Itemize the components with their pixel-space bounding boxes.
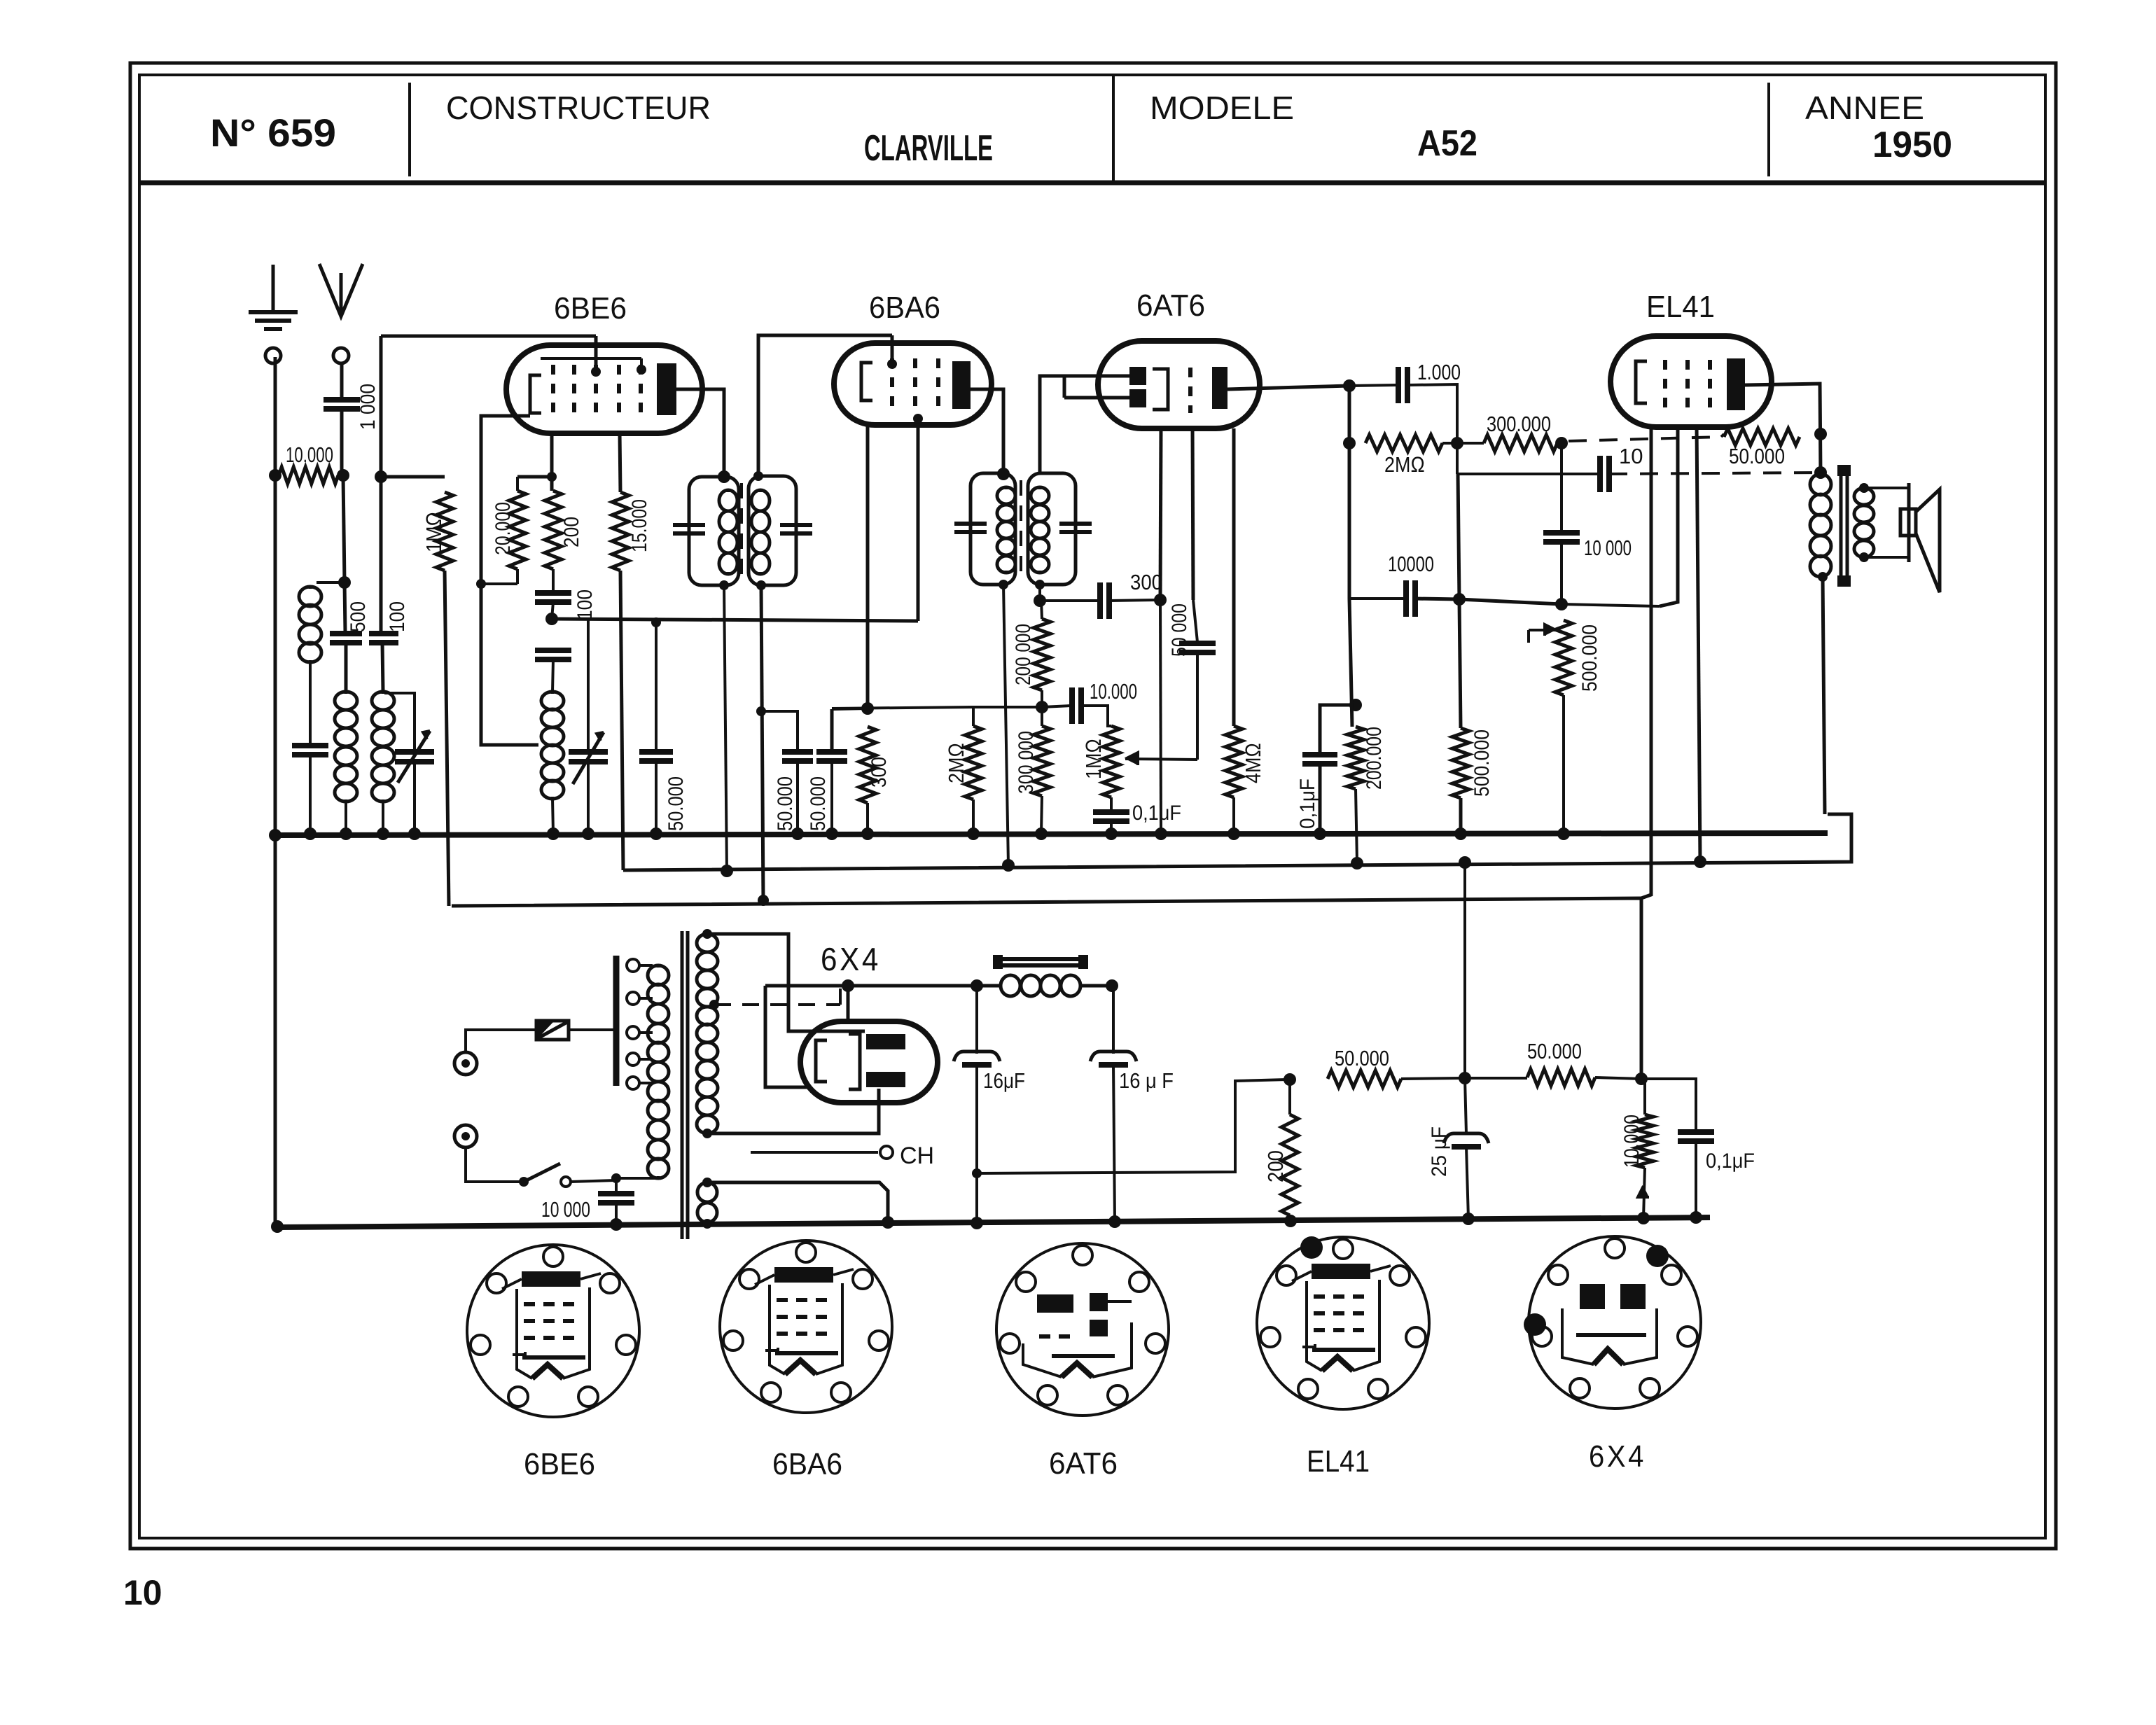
wire 50a to node bbox=[1401, 1078, 1462, 1079]
resistor 300.000 feedback bbox=[1484, 435, 1557, 452]
switch to transformer bbox=[571, 1180, 615, 1182]
wire bias vert up bbox=[1463, 898, 1466, 1078]
B+ riser to output transformer bbox=[1823, 577, 1825, 814]
wire cathode line bbox=[552, 619, 918, 621]
pinout EL41 top dot bbox=[1300, 1236, 1323, 1259]
EL41 grid1 dashed bbox=[1663, 360, 1667, 412]
wire cap3 to coil L4 bbox=[552, 659, 553, 692]
speaker voice coil bbox=[1900, 509, 1916, 536]
dot 300 bus bbox=[861, 827, 874, 840]
svg-text:6BA6: 6BA6 bbox=[869, 291, 940, 325]
capacitor 50.000 AVC 2 bbox=[830, 709, 834, 750]
coil L4 osc bbox=[551, 692, 555, 694]
resistor 200.000 right bbox=[1347, 727, 1364, 789]
svg-text:50 000: 50 000 bbox=[1168, 603, 1191, 657]
dot 200k B+ bbox=[1351, 857, 1363, 870]
wire signal grid vertical bbox=[380, 336, 383, 632]
mains transformer primary bar bbox=[613, 956, 620, 1086]
resistor 10.000 output bbox=[1641, 1077, 1645, 1080]
svg-text:6BE6: 6BE6 bbox=[524, 1447, 595, 1481]
dot bus left bbox=[269, 829, 281, 841]
pinout 6AT6 bbox=[996, 1243, 1169, 1416]
tube 6AT6 bbox=[1098, 341, 1260, 428]
svg-text:50.000: 50.000 bbox=[1335, 1046, 1389, 1070]
wire cap to 866 line bbox=[1560, 542, 1563, 604]
6BA6 grid top dot bbox=[887, 359, 897, 369]
CH terminal bbox=[880, 1146, 893, 1159]
dot bottom bus left bbox=[271, 1220, 284, 1233]
dot 4M bus bbox=[1227, 827, 1240, 840]
svg-text:1950: 1950 bbox=[1872, 125, 1952, 165]
header divider 1 bbox=[408, 83, 411, 176]
EL41 plate bbox=[1727, 358, 1745, 410]
svg-text:50.000: 50.000 bbox=[1729, 444, 1785, 468]
wire 20k bottom join bbox=[481, 582, 517, 585]
node 25uF top bbox=[1459, 1072, 1471, 1084]
capacitor 100 tank bbox=[369, 631, 398, 636]
svg-text:500: 500 bbox=[347, 601, 370, 632]
pinout 6X4 bbox=[1529, 1236, 1701, 1409]
dot VC2 bus bbox=[582, 827, 594, 840]
svg-text:1 000: 1 000 bbox=[356, 384, 380, 430]
primary tap 4 bbox=[627, 1053, 639, 1066]
IFT2 primary bottom wire bbox=[1003, 585, 1008, 865]
6BE6 top pin wire bbox=[594, 336, 598, 372]
dot 200 bus bbox=[1284, 1215, 1297, 1227]
resistor 500.000 grid bbox=[1452, 728, 1469, 798]
svg-text:300: 300 bbox=[868, 757, 891, 788]
svg-text:CONSTRUCTEUR: CONSTRUCTEUR bbox=[446, 90, 711, 126]
IFT1 right box bbox=[749, 476, 796, 585]
coil L1 antenna bbox=[317, 581, 345, 584]
wire 200 to cap bbox=[552, 569, 555, 592]
wire 2M-300k bbox=[1442, 442, 1484, 445]
resistor 2M AVC bbox=[972, 707, 975, 726]
svg-text:6AT6: 6AT6 bbox=[1049, 1446, 1118, 1481]
dot 01uF bus bbox=[1690, 1211, 1702, 1224]
svg-text:6BE6: 6BE6 bbox=[554, 291, 627, 326]
IFT1 primary coil bbox=[727, 490, 730, 492]
node plate 10line bbox=[1814, 466, 1827, 479]
dot T1 prim B+ bbox=[721, 865, 733, 877]
capacitor 500 bbox=[330, 631, 362, 636]
ground terminal bbox=[265, 348, 281, 363]
wire 1M to bias line bbox=[445, 571, 449, 906]
EL41 grid pin wire bbox=[1660, 427, 1678, 606]
svg-text:1.000: 1.000 bbox=[1417, 360, 1461, 384]
svg-text:6X4: 6X4 bbox=[1589, 1439, 1646, 1474]
6BA6 cathode bbox=[861, 363, 872, 400]
HV CT dashed bbox=[714, 1003, 840, 1006]
tube 6BA6 bbox=[834, 343, 992, 425]
cap 50.000 plates bbox=[639, 749, 673, 755]
wire 10k cap to pot bbox=[1081, 706, 1111, 726]
6BE6 grid3 dashed bbox=[594, 365, 598, 418]
antenna terminal bbox=[333, 348, 349, 363]
header bottom rule bbox=[139, 181, 2045, 186]
wire 10000 to grid line bbox=[1415, 599, 1459, 599]
capacitor 10000 fb bbox=[1349, 597, 1405, 600]
6AT6 grid bracket bbox=[1153, 369, 1168, 410]
dashed 10 line bbox=[1609, 473, 1821, 474]
capacitor 10 000 line bbox=[615, 1178, 618, 1192]
IFT2 primary top dot bbox=[997, 468, 1010, 480]
wire coupling elbow bbox=[1407, 384, 1457, 443]
6BA6 plate wire bbox=[971, 389, 1003, 474]
wire avc2 cap stub bbox=[832, 708, 868, 709]
dot screen B+ bbox=[1694, 855, 1706, 868]
svg-text:50.000: 50.000 bbox=[665, 776, 688, 831]
node pot top bbox=[1555, 598, 1568, 610]
capacitor 1.000 antenna bbox=[324, 397, 360, 403]
phono jack 2 bbox=[454, 1125, 477, 1147]
svg-text:10000: 10000 bbox=[1388, 552, 1434, 576]
capacitor 10 000 grid bbox=[1543, 530, 1580, 536]
ground symbol bbox=[272, 265, 275, 312]
output transformer primary bbox=[1819, 474, 1823, 476]
HV bottom wire bbox=[707, 1089, 879, 1133]
6AT6 grid pin wire bbox=[1160, 428, 1161, 600]
6AT6 diode plate 2 bbox=[1129, 389, 1146, 407]
resistor 300 000 det bbox=[1034, 726, 1050, 796]
wire L3 to bus bbox=[382, 802, 384, 833]
wire ant node to cap500 bbox=[345, 582, 345, 632]
svg-text:25 μF: 25 μF bbox=[1428, 1126, 1451, 1177]
6BE6 grid5 dashed bbox=[639, 365, 643, 418]
wire avc2 to bus bbox=[830, 762, 833, 833]
svg-text:EL41: EL41 bbox=[1307, 1444, 1370, 1479]
dot pot bus bbox=[1557, 827, 1570, 840]
6X4 inner bracket bbox=[849, 1034, 860, 1089]
HV top wire bbox=[707, 934, 865, 1031]
svg-text:A52: A52 bbox=[1417, 123, 1477, 164]
6AT6 diode pin wire bbox=[1192, 428, 1193, 600]
capacitor 10.000 det bbox=[1042, 706, 1071, 707]
wire 25uF to bus bbox=[1466, 1147, 1468, 1219]
switch wire bbox=[466, 1147, 521, 1182]
6BE6 plate wire bbox=[676, 389, 724, 477]
capacitor 25uF bbox=[1465, 1078, 1466, 1134]
node 6AT6 grid line bbox=[1154, 594, 1167, 606]
potentiometer 500.000 bbox=[1555, 620, 1572, 695]
6BE6 grid2 dashed bbox=[572, 365, 576, 418]
capacitor 10 feedback bbox=[1456, 443, 1459, 474]
wire divider line bbox=[973, 706, 1042, 708]
speaker wires bbox=[1864, 487, 1909, 489]
primary coil bottom bbox=[616, 1177, 658, 1180]
capacitor 300 det bbox=[1097, 582, 1103, 619]
speaker cone bbox=[1916, 489, 1940, 592]
capacitor 16uF 1 bbox=[975, 986, 978, 1054]
resistor 200 000 det bbox=[1041, 601, 1042, 619]
resistor 10.000 ant-gnd bbox=[279, 467, 338, 484]
dot 01uf bus bbox=[1105, 827, 1118, 840]
speaker frame bbox=[1907, 483, 1911, 562]
node cathode line left bbox=[545, 613, 558, 625]
dot 16uF2 bus bbox=[1108, 1215, 1121, 1228]
svg-text:1MΩ: 1MΩ bbox=[422, 512, 446, 552]
HV CT riser bbox=[839, 989, 842, 1005]
svg-text:500.000: 500.000 bbox=[1578, 624, 1601, 692]
EL41 plate wire bbox=[1745, 384, 1821, 474]
pot arrow bbox=[1529, 629, 1556, 631]
pinout 6BA6 bbox=[720, 1241, 892, 1413]
wire 300 to bus bbox=[866, 803, 869, 833]
6BE6 pin A down bbox=[550, 433, 554, 491]
IFT2 left box bbox=[971, 473, 1015, 585]
6AT6 diode plate 1 bbox=[1129, 367, 1146, 385]
wire 300cap to grid line bbox=[1109, 600, 1159, 601]
svg-text:300 000: 300 000 bbox=[1015, 731, 1038, 794]
svg-text:EL41: EL41 bbox=[1646, 290, 1715, 324]
resistor 20.000 bbox=[516, 477, 519, 491]
6AT6 plate wire bbox=[1227, 386, 1349, 389]
wire 16uF2 to bus bbox=[1113, 1065, 1115, 1222]
IFT2 right cap bbox=[1059, 522, 1092, 526]
svg-text:CLARVILLE: CLARVILLE bbox=[864, 128, 993, 169]
OT primary bottom dot bbox=[1818, 572, 1828, 582]
dot T2 prim B+ bbox=[1002, 859, 1015, 872]
wire 10k to bus arrow bbox=[1643, 1168, 1645, 1218]
wire 50k cap to bus bbox=[655, 762, 658, 833]
OT secondary bbox=[1863, 488, 1866, 490]
6BA6 cathode pin wire bbox=[866, 425, 870, 710]
potentiometer 1M volume bbox=[1103, 726, 1120, 797]
svg-text:50.000: 50.000 bbox=[774, 776, 797, 831]
node ant junction bbox=[337, 469, 349, 482]
phono jack 1 bbox=[454, 1052, 477, 1075]
dashed feedback line bbox=[1569, 437, 1721, 441]
wire fb to 50k bbox=[1721, 434, 1724, 437]
outer page border frame bbox=[130, 63, 2056, 1549]
6X4 top pin bbox=[847, 986, 850, 1021]
capacitor 100 osc bbox=[535, 590, 571, 596]
capacitor 50.000 osc pad bbox=[655, 622, 658, 750]
dot L4 bus bbox=[547, 827, 559, 840]
6AT6 plate bbox=[1212, 367, 1227, 409]
B+ line bbox=[623, 814, 1851, 870]
wire 300k to bus bbox=[1041, 796, 1042, 833]
IFT1 primary top dot bbox=[718, 470, 730, 483]
wire pot to bus bbox=[1562, 695, 1565, 833]
6BA6 grid1 dashed bbox=[890, 358, 894, 410]
capacitor L1 bottom bbox=[292, 743, 328, 748]
6AT6 grid dashed bbox=[1188, 368, 1192, 413]
inner page border frame bbox=[139, 75, 2045, 1538]
IFT2 primary coil bbox=[1005, 487, 1008, 489]
svg-text:300: 300 bbox=[1130, 570, 1162, 594]
capacitor 0,1uF output bbox=[1678, 1129, 1714, 1135]
coil L2 bbox=[345, 692, 348, 694]
resistor 200 bias bbox=[1288, 1080, 1291, 1115]
wiper arrow 1M bbox=[1125, 759, 1197, 760]
capacitor osc coil top bbox=[535, 648, 571, 653]
OT core bbox=[1839, 470, 1843, 581]
svg-text:16 μ F: 16 μ F bbox=[1119, 1068, 1174, 1093]
dot bias cross bbox=[1459, 856, 1471, 869]
dot 2M bus bbox=[967, 827, 980, 840]
svg-text:0,1μF: 0,1μF bbox=[1296, 778, 1319, 829]
wire avc1 to bus bbox=[796, 762, 799, 833]
svg-text:ANNEE: ANNEE bbox=[1805, 90, 1924, 126]
svg-text:100: 100 bbox=[573, 589, 597, 620]
switch bbox=[519, 1177, 529, 1187]
node 300k right bbox=[1555, 437, 1568, 449]
heater winding bbox=[706, 1182, 709, 1185]
IFT1 right cap bbox=[780, 523, 812, 527]
filter choke coil bbox=[1001, 975, 1020, 996]
wire B+ feed lower bbox=[977, 1080, 1287, 1173]
dot 500k grid bus bbox=[1454, 827, 1467, 840]
6BA6 plate bbox=[952, 361, 971, 409]
primary tap 5 bbox=[627, 1077, 639, 1089]
dot line cap bus bbox=[610, 1218, 623, 1231]
svg-text:200: 200 bbox=[560, 517, 583, 547]
svg-text:100: 100 bbox=[386, 601, 409, 632]
wire 300k node down bbox=[1560, 443, 1563, 531]
svg-text:500.000: 500.000 bbox=[1470, 729, 1494, 797]
wire VC1 top bbox=[384, 693, 415, 750]
wire cap to cath node bbox=[552, 602, 553, 619]
pinout 6X4 dots bbox=[1646, 1245, 1669, 1267]
wire gnd vert join bbox=[269, 469, 281, 482]
node plate 50k bbox=[1814, 428, 1827, 440]
6X4 plate 1 bbox=[866, 1034, 905, 1049]
svg-text:10: 10 bbox=[1619, 444, 1643, 468]
dot 6AT6 grid bus bbox=[1155, 827, 1167, 840]
mains transformer primary coil bbox=[657, 965, 660, 968]
filter choke core bbox=[998, 957, 1083, 961]
resistor 50.000 fb bbox=[1724, 428, 1800, 445]
dot choke left bbox=[971, 979, 983, 992]
coil L3 bbox=[382, 692, 385, 694]
capacitor 1.000 coupling bbox=[1349, 385, 1397, 386]
node 2M h left bbox=[1343, 437, 1356, 449]
6X4 cathode wire bbox=[765, 986, 807, 1087]
6BA6 grid3 dashed bbox=[936, 358, 940, 410]
IFT1 secondary bottom wire bbox=[761, 585, 763, 900]
wire 50b right bbox=[1595, 1077, 1641, 1079]
wire 200k-300k bbox=[1041, 690, 1043, 726]
wire avc row left bbox=[832, 707, 973, 708]
wire osc fb tap bbox=[481, 584, 538, 745]
wire plate node down bbox=[1349, 599, 1352, 727]
resistor 50.000 a bbox=[1328, 1070, 1401, 1087]
svg-text:6X4: 6X4 bbox=[821, 941, 881, 977]
6AT6 diode wires bbox=[1040, 376, 1129, 473]
node det 858 bbox=[1034, 594, 1046, 607]
wire 681 stub to 1M bbox=[381, 475, 445, 479]
dot avc2 bus bbox=[826, 827, 838, 840]
wire 20k top stub bbox=[517, 475, 552, 479]
svg-text:0,1μF: 0,1μF bbox=[1706, 1150, 1755, 1173]
svg-text:1MΩ: 1MΩ bbox=[1081, 739, 1106, 779]
wire antenna down bbox=[340, 363, 344, 398]
wire L2 to bus bbox=[345, 802, 347, 833]
svg-text:16μF: 16μF bbox=[983, 1068, 1025, 1093]
primary tap 3 bbox=[627, 1026, 639, 1039]
HV winding bbox=[706, 934, 709, 936]
primary tap 2 bbox=[627, 992, 639, 1005]
svg-text:50.000: 50.000 bbox=[1527, 1039, 1582, 1063]
wire diode cap to wiper bbox=[1196, 652, 1199, 760]
EL41 screen pin wire bbox=[1697, 427, 1700, 862]
wire grid line to bus bbox=[1160, 600, 1161, 833]
wire 01uF stub bbox=[1641, 1079, 1696, 1131]
svg-text:50.000: 50.000 bbox=[807, 776, 830, 831]
6BA6 g3 pin wire bbox=[917, 425, 920, 621]
node 50k row left bbox=[1284, 1073, 1296, 1086]
node 200k top bbox=[1349, 699, 1362, 711]
svg-text:10.000: 10.000 bbox=[286, 442, 333, 467]
svg-text:15.000: 15.000 bbox=[628, 499, 651, 552]
node 300.000 junction bbox=[1451, 437, 1463, 449]
wire cap500 to L2 bbox=[345, 643, 348, 692]
wire 1927 down to 10000cap bbox=[1348, 443, 1351, 599]
IFT1 primary bottom wire bbox=[724, 585, 727, 872]
bias line bbox=[452, 898, 1641, 1079]
svg-text:10 000: 10 000 bbox=[541, 1197, 590, 1222]
IFT1 core dashed bbox=[740, 483, 743, 581]
dot 10k bus bbox=[1637, 1212, 1650, 1224]
pinout EL41 bbox=[1257, 1237, 1429, 1409]
6BE6 plate bbox=[657, 363, 676, 415]
6BE6 grid1 dashed bbox=[551, 365, 555, 418]
capacitor 0,1uF det bbox=[1093, 809, 1129, 815]
left vertical rail bbox=[274, 357, 277, 1227]
dot L2 bus bbox=[340, 827, 352, 840]
dot avc1 bus bbox=[791, 827, 804, 840]
svg-text:300.000: 300.000 bbox=[1487, 412, 1551, 436]
wire VC1 to bus bbox=[413, 762, 416, 833]
dot 0,1uF AF bus bbox=[1314, 827, 1326, 840]
6BE6 pin B screen bbox=[620, 433, 620, 492]
variable capacitor VC1 bbox=[395, 749, 434, 755]
wire grid line top bbox=[381, 335, 596, 338]
dot 50k bus bbox=[650, 827, 662, 840]
wire antenna node down bbox=[343, 475, 345, 582]
svg-text:CH: CH bbox=[900, 1143, 934, 1169]
resistor 50.000 b bbox=[1468, 1077, 1527, 1080]
svg-text:10.000: 10.000 bbox=[1090, 679, 1137, 704]
tube 6BE6 bbox=[506, 345, 702, 433]
svg-text:0,1μF: 0,1μF bbox=[1132, 802, 1181, 825]
wire L1 cap to bus bbox=[309, 755, 312, 833]
IFT2 left cap bbox=[954, 522, 987, 526]
tube 6X4 bbox=[800, 1021, 938, 1103]
IFT1 left box bbox=[689, 477, 739, 585]
ground bus bbox=[275, 833, 1828, 835]
wire VC2 to bus bbox=[587, 762, 590, 833]
svg-text:2MΩ: 2MΩ bbox=[944, 743, 968, 783]
variable capacitor VC2 bbox=[569, 749, 608, 755]
dot heater bus bbox=[882, 1216, 894, 1229]
dot 16uF1 bus bbox=[971, 1217, 983, 1229]
wire grid node down bbox=[1458, 474, 1459, 599]
header divider 3 bbox=[1767, 83, 1770, 176]
wire 0,1uF AF to bus bbox=[1319, 764, 1322, 833]
resistor 200 osc bbox=[545, 491, 562, 569]
capacitor 16uF 2 bbox=[1112, 986, 1115, 1054]
svg-text:200 000: 200 000 bbox=[1012, 624, 1035, 685]
resistor 4M bbox=[1232, 428, 1236, 726]
wire cap100 to L3 bbox=[382, 643, 383, 692]
node 10000 right bbox=[1453, 593, 1466, 606]
wire ant cap to node bbox=[340, 409, 344, 475]
wire screen to B+ bbox=[620, 571, 623, 870]
svg-text:10.000: 10.000 bbox=[1620, 1115, 1643, 1168]
wire 500k grid to bus bbox=[1459, 798, 1463, 833]
